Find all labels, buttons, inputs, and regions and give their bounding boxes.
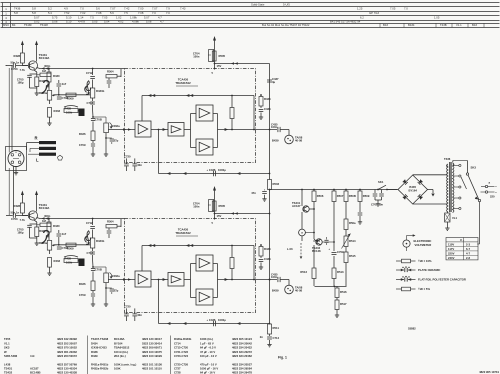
svg-text:TBA641B12: TBA641B12 [175, 81, 191, 85]
svg-text:C712: C712 [86, 71, 93, 75]
svg-text:400n: 400n [44, 64, 51, 68]
svg-text:D434: D434 [91, 341, 98, 345]
svg-text:40n: 40n [137, 313, 142, 317]
svg-text:4822 334 29478: 4822 334 29478 [232, 370, 252, 374]
svg-text:7.02: 7.02 [80, 11, 86, 15]
svg-text:C438: C438 [264, 257, 271, 261]
svg-text:T43B: T43B [440, 23, 447, 27]
svg-text:C725-C726: C725-C726 [174, 362, 189, 366]
svg-text:64 µF - 6.3 V: 64 µF - 6.3 V [200, 346, 216, 350]
svg-text:L: L [36, 158, 39, 163]
svg-text:C721-C722: C721-C722 [174, 350, 189, 354]
svg-text:180µ: 180µ [17, 230, 24, 234]
svg-text:100n: 100n [271, 125, 278, 129]
svg-text:7.9: 7.9 [166, 7, 170, 11]
svg-text:5.10: 5.10 [66, 19, 72, 23]
svg-text:C709: C709 [337, 250, 344, 254]
svg-text:TCA430: TCA430 [178, 228, 189, 232]
svg-text:R517: R517 [340, 302, 347, 306]
svg-text:4.08k: 4.08k [132, 19, 139, 23]
svg-text:4822 070 10052: 4822 070 10052 [57, 346, 77, 350]
svg-text:4822 061 20332: 4822 061 20332 [57, 350, 77, 354]
svg-text:5.08: 5.08 [146, 19, 152, 23]
svg-text:4822 100 10075: 4822 100 10075 [142, 350, 162, 354]
svg-text:4.9: 4.9 [64, 7, 68, 11]
svg-text:R434b: R434b [96, 89, 105, 93]
svg-text:GP 7G3: GP 7G3 [369, 11, 379, 15]
svg-text:4822 130 40338: 4822 130 40338 [57, 370, 77, 374]
svg-text:Solid-State: Solid-State [251, 2, 265, 6]
svg-text:7.42: 7.42 [124, 7, 130, 11]
svg-text:7.7k: 7.7k [20, 218, 26, 222]
svg-text:5.06: 5.06 [52, 19, 58, 23]
svg-text:5.07: 5.07 [144, 16, 150, 20]
svg-text:4822 101 10136: 4822 101 10136 [142, 362, 162, 366]
svg-text:7.5: 7.5 [124, 11, 128, 15]
svg-text:+ C436: + C436 [207, 168, 216, 172]
svg-text:5.07: 5.07 [34, 16, 40, 20]
svg-text:7.43: 7.43 [180, 7, 186, 11]
svg-text:1000µ: 1000µ [218, 318, 226, 322]
svg-text:100n: 100n [193, 55, 200, 59]
svg-text:6.2: 6.2 [360, 16, 364, 20]
svg-text:C714: C714 [174, 341, 181, 345]
svg-text:TBA641B12: TBA641B12 [175, 231, 191, 235]
svg-text:7.08: 7.08 [138, 11, 144, 15]
svg-text:FLAT-FOIL POLYESTER CAPACITOR: FLAT-FOIL POLYESTER CAPACITOR [418, 278, 466, 282]
svg-text:7.00: 7.00 [138, 7, 144, 11]
svg-text:C709: C709 [79, 143, 86, 147]
svg-text:220: 220 [490, 195, 495, 199]
svg-text:PLATE CERAMIC: PLATE CERAMIC [418, 268, 440, 272]
svg-text:BC149A: BC149A [39, 206, 50, 210]
svg-text:C728: C728 [174, 370, 181, 374]
svg-text:4-7: 4-7 [466, 252, 470, 256]
svg-text:R428: R428 [14, 54, 21, 58]
svg-text:64 µF - 16 V: 64 µF - 16 V [200, 370, 215, 374]
svg-text:T543F: T543F [24, 23, 32, 27]
svg-text:B439: B439 [272, 289, 279, 293]
svg-text:R512: R512 [300, 270, 307, 274]
svg-text:R509: R509 [363, 194, 370, 198]
svg-text:7.08: 7.08 [96, 11, 102, 15]
svg-text:4n7: 4n7 [62, 232, 67, 236]
svg-text:C713: C713 [87, 251, 94, 255]
svg-text:B43: B43 [383, 23, 388, 27]
svg-text:¼W ± 5%: ¼W ± 5% [418, 287, 430, 291]
svg-text:L438: L438 [4, 362, 11, 366]
svg-text:R434a: R434a [39, 241, 48, 245]
svg-text:C703: C703 [11, 67, 18, 71]
svg-text:R434b: R434b [96, 239, 105, 243]
svg-text:5.6: 5.6 [96, 7, 100, 11]
svg-text:R433: R433 [54, 109, 61, 113]
svg-text:4822 260 50072: 4822 260 50072 [57, 354, 77, 358]
svg-text:R435: R435 [65, 107, 72, 111]
svg-text:C723-C724: C723-C724 [174, 354, 189, 358]
svg-text:6-7: 6-7 [466, 247, 470, 251]
svg-text:R50a: R50a [349, 221, 356, 225]
svg-text:4822 334 29584: 4822 334 29584 [232, 367, 252, 371]
svg-text:1000 µF - 16 V: 1000 µF - 16 V [200, 367, 218, 371]
svg-text:53882: 53882 [408, 327, 416, 331]
svg-text:4822 334 20272: 4822 334 20272 [232, 350, 252, 354]
svg-text:R505: R505 [219, 204, 226, 208]
svg-text:R430: R430 [53, 74, 60, 78]
svg-text:R507: R507 [337, 194, 344, 198]
svg-text:7.7k: 7.7k [20, 68, 26, 72]
svg-text:BC148A: BC148A [114, 337, 125, 341]
svg-text:TBA641B12: TBA641B12 [114, 346, 130, 350]
svg-text:4822 252 20007: 4822 252 20007 [57, 341, 77, 345]
svg-text:4822 209 60071: 4822 209 60071 [142, 346, 162, 350]
svg-text:V1.1: V1.1 [4, 341, 10, 345]
svg-text:R432a: R432a [112, 274, 121, 278]
svg-text:Fig. 1: Fig. 1 [278, 356, 287, 360]
svg-text:R432a: R432a [112, 124, 121, 128]
svg-text:4822 130 40334: 4822 130 40334 [57, 367, 77, 371]
svg-text:R516: R516 [340, 290, 347, 294]
svg-text:MSC: MSC [3, 23, 9, 27]
svg-text:R431a-R431b: R431a-R431b [91, 362, 109, 366]
svg-text:R504: R504 [107, 70, 114, 74]
svg-text:C709: C709 [79, 293, 86, 297]
svg-text:100K (lin.): 100K (lin.) [200, 337, 213, 341]
svg-text:7.07: 7.07 [110, 7, 116, 11]
svg-text:R436: R436 [79, 282, 86, 286]
svg-text:5-U/5: 5-U/5 [283, 2, 290, 6]
svg-text:TS432: TS432 [4, 370, 13, 374]
svg-text:BY164: BY164 [408, 188, 417, 192]
svg-text:40n: 40n [137, 163, 142, 167]
svg-text:B439: B439 [272, 139, 279, 143]
svg-text:4822 101 10110: 4822 101 10110 [142, 367, 162, 371]
svg-text:4822 342 30392: 4822 342 30392 [57, 337, 77, 341]
svg-text:4822 305 10124: 4822 305 10124 [232, 337, 252, 341]
svg-text:BC149A: BC149A [39, 56, 50, 60]
svg-text:2-8: 2-8 [466, 256, 470, 260]
svg-text:1 µF - 63 V: 1 µF - 63 V [200, 341, 214, 345]
svg-text:C70B: C70B [95, 118, 102, 122]
svg-text:R432a-R432b: R432a-R432b [91, 367, 109, 371]
svg-text:1000µ: 1000µ [218, 168, 226, 172]
svg-text:4822 100 19029: 4822 100 19029 [142, 354, 162, 358]
svg-text:7.0: 7.0 [404, 7, 408, 11]
svg-text:B43: B43 [472, 23, 477, 27]
svg-text:C727: C727 [174, 367, 181, 371]
svg-text:B41 545 517.5A 4832 94: B41 545 517.5A 4832 94 [330, 19, 361, 23]
svg-text:R428: R428 [14, 204, 21, 208]
svg-text:5322 130 30414: 5322 130 30414 [142, 341, 162, 345]
svg-text:240V: 240V [448, 256, 455, 260]
svg-text:7.05: 7.05 [390, 7, 396, 11]
svg-text:40-08: 40-08 [295, 139, 303, 143]
svg-text:4.478: 4.478 [78, 19, 85, 23]
svg-text:2K2 (lin.): 2K2 (lin.) [114, 354, 126, 358]
svg-text:R509: R509 [67, 97, 74, 101]
svg-text:50n 1n: 50n 1n [11, 61, 20, 65]
svg-text:1.08k: 1.08k [130, 16, 137, 20]
svg-text:BC148: BC148 [312, 249, 321, 253]
svg-text:2-3: 2-3 [466, 243, 470, 247]
svg-text:100 µF - 10 V: 100 µF - 10 V [200, 354, 217, 358]
svg-text:27p: 27p [114, 289, 119, 293]
svg-text:C720: C720 [124, 155, 131, 159]
svg-text:1.05: 1.05 [434, 16, 440, 20]
svg-text:2n: 2n [260, 335, 264, 339]
svg-text:V1.1: V1.1 [456, 23, 462, 27]
svg-text:1.14: 1.14 [78, 16, 84, 20]
svg-text:SK3: SK3 [4, 346, 10, 350]
svg-text:5485-5486: 5485-5486 [4, 354, 18, 358]
svg-text:T5428: T5428 [40, 23, 48, 27]
svg-text:110V: 110V [448, 243, 454, 247]
svg-text:400n: 400n [44, 214, 51, 218]
svg-text:7.07: 7.07 [152, 7, 158, 11]
svg-text:TS437-TS438: TS437-TS438 [91, 337, 109, 341]
svg-text:SK3: SK3 [471, 166, 477, 170]
svg-text:470 µF - 10 V: 470 µF - 10 V [200, 362, 217, 366]
svg-text:R433a-R433b: R433a-R433b [174, 337, 192, 341]
svg-text:ELECTRONIC: ELECTRONIC [414, 239, 432, 243]
svg-text:C707 10n: C707 10n [371, 203, 383, 207]
svg-text:R438: R438 [264, 247, 271, 251]
svg-text:1.02: 1.02 [116, 16, 122, 20]
svg-text:4822 334 20642: 4822 334 20642 [232, 341, 252, 345]
svg-text:C720: C720 [124, 305, 131, 309]
svg-text:C438: C438 [264, 107, 271, 111]
svg-text:100n: 100n [193, 205, 200, 209]
svg-text:40-08: 40-08 [295, 289, 303, 293]
svg-text:117V: 117V [448, 247, 454, 251]
svg-text:4n7: 4n7 [62, 82, 67, 86]
svg-text:4822 257 50769: 4822 257 50769 [57, 362, 77, 366]
svg-text:4822 130 40017: 4822 130 40017 [142, 337, 162, 341]
svg-text:15V: 15V [217, 214, 222, 218]
svg-text:5.02: 5.02 [34, 19, 40, 23]
svg-text:7.0: 7.0 [80, 7, 84, 11]
svg-text:4.7: 4.7 [160, 19, 164, 23]
svg-text:R513: R513 [337, 270, 344, 274]
svg-text:100 Ω (lin.): 100 Ω (lin.) [114, 350, 128, 354]
svg-text:IC439-IC433: IC439-IC433 [91, 346, 107, 350]
svg-text:R504: R504 [107, 220, 114, 224]
svg-text:4822 334 20422: 4822 334 20422 [232, 346, 252, 350]
svg-text:R515: R515 [349, 254, 356, 258]
svg-text:T436: T436 [444, 157, 451, 161]
svg-text:R: R [35, 136, 38, 141]
svg-text:R439: R439 [91, 354, 98, 358]
svg-text:T436: T436 [14, 7, 21, 11]
svg-text:But So 04 Mu1 So Da T5437 9: But So 04 Mu1 So Da T5437 94 T5422 [262, 23, 310, 27]
svg-text:5.05: 5.05 [92, 19, 98, 23]
svg-text:100K: 100K [114, 367, 121, 371]
svg-text:27p: 27p [114, 139, 119, 143]
svg-text:¼W ± 10%: ¼W ± 10% [418, 259, 432, 263]
svg-text:R433: R433 [54, 259, 61, 263]
svg-text:SK1: SK1 [378, 180, 384, 184]
svg-text:7.0: 7.0 [152, 11, 156, 15]
svg-text:R505: R505 [219, 54, 226, 58]
svg-text:AC187: AC187 [30, 367, 39, 371]
svg-text:R514: R514 [349, 239, 356, 243]
svg-text:4822 334 20462: 4822 334 20462 [232, 354, 252, 358]
svg-text:4822 905 10731: 4822 905 10731 [479, 370, 499, 374]
svg-text:~: ~ [495, 185, 497, 189]
svg-text:180µ: 180µ [17, 80, 24, 84]
svg-text:7.52: 7.52 [64, 11, 70, 15]
svg-text:1.25: 1.25 [357, 7, 363, 11]
svg-text:R503: R503 [273, 182, 280, 186]
svg-text:100K (contr. log.): 100K (contr. log.) [114, 362, 136, 366]
svg-text:R434a: R434a [39, 91, 48, 95]
svg-text:C715-C720: C715-C720 [174, 346, 189, 350]
svg-text:7.0: 7.0 [166, 11, 170, 15]
svg-text:47 µF - 10 V: 47 µF - 10 V [200, 350, 215, 354]
svg-text:W: W [4, 350, 7, 354]
svg-text:5.8: 5.8 [32, 11, 36, 15]
svg-text:50n 1n: 50n 1n [11, 211, 20, 215]
svg-text:47n: 47n [251, 191, 256, 195]
svg-text:5.75: 5.75 [52, 16, 58, 20]
svg-text:7.5: 7.5 [90, 16, 94, 20]
svg-text:L-03: L-03 [287, 247, 293, 251]
svg-text:BY164: BY164 [114, 341, 123, 345]
svg-text:C703: C703 [11, 217, 18, 221]
svg-text:R438: R438 [264, 97, 271, 101]
svg-text:C70B: C70B [95, 268, 102, 272]
svg-text:4 Ω: 4 Ω [30, 354, 35, 358]
svg-text:C710: C710 [313, 239, 320, 243]
svg-text:T455: T455 [4, 337, 11, 341]
svg-text:4.02: 4.02 [118, 19, 124, 23]
svg-text:U ~: U ~ [460, 238, 465, 242]
svg-text:R50B: R50B [349, 194, 356, 198]
svg-text:TS431: TS431 [4, 367, 13, 371]
svg-text:4822 334 20527: 4822 334 20527 [232, 362, 252, 366]
svg-text:5.8: 5.8 [32, 7, 36, 11]
svg-text:4.7: 4.7 [158, 16, 162, 20]
svg-text:5.8: 5.8 [14, 11, 18, 15]
svg-text:4µ: 4µ [272, 80, 276, 84]
svg-text:R435: R435 [65, 257, 72, 261]
svg-text:+ C436: + C436 [207, 318, 216, 322]
svg-text:VOLTMETER: VOLTMETER [415, 243, 432, 247]
svg-text:R509: R509 [67, 247, 74, 251]
svg-text:100n: 100n [271, 275, 278, 279]
svg-text:R511: R511 [273, 326, 280, 330]
svg-text:R436: R436 [79, 132, 86, 136]
svg-text:R430: R430 [53, 224, 60, 228]
svg-text:5.6: 5.6 [110, 11, 114, 15]
svg-text:R506: R506 [317, 194, 324, 198]
svg-text:C712: C712 [86, 221, 93, 225]
svg-text:BC148B: BC148B [30, 370, 41, 374]
svg-text:C714: C714 [273, 336, 280, 340]
svg-text:15V: 15V [217, 64, 222, 68]
svg-text:7.05: 7.05 [102, 16, 108, 20]
svg-text:100k: 100k [66, 260, 73, 264]
svg-text:5.04: 5.04 [104, 19, 110, 23]
svg-text:5.4: 5.4 [48, 11, 52, 15]
svg-text:~: ~ [495, 191, 497, 195]
svg-text:100k: 100k [66, 110, 73, 114]
svg-text:B4: B4 [12, 23, 16, 27]
svg-text:220V: 220V [448, 252, 455, 256]
svg-text:5.2: 5.2 [48, 7, 52, 11]
svg-text:VL1: VL1 [452, 216, 458, 220]
svg-text:5.10: 5.10 [66, 16, 72, 20]
svg-text:C713: C713 [87, 101, 94, 105]
svg-text:TCA430: TCA430 [178, 78, 189, 82]
svg-text:B434: B434 [408, 23, 415, 27]
svg-text:R438: R438 [91, 350, 98, 354]
svg-text:AC127: AC127 [292, 204, 301, 208]
